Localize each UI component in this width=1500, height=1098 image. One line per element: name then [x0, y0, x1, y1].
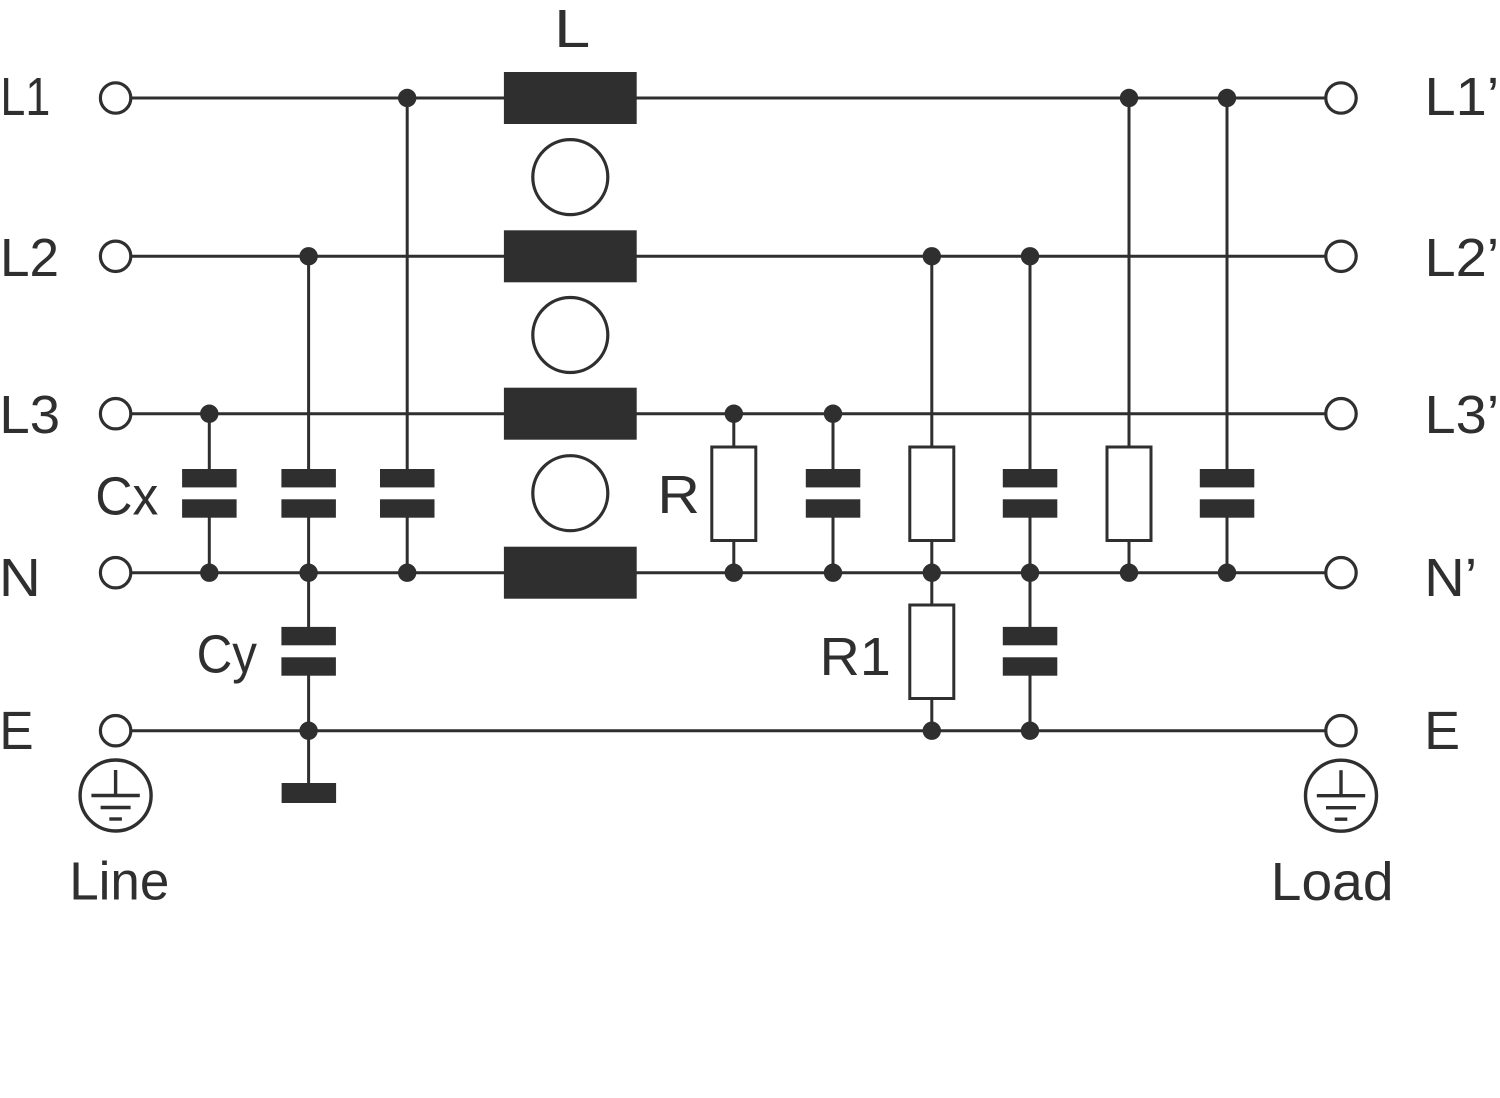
choke L core circle 2: [533, 298, 608, 373]
node N-Cx2: [299, 564, 317, 582]
svg-text:L2: L2: [0, 229, 59, 288]
wire Cx2 upper lead: [307, 256, 310, 478]
wire Cx3 lower lead: [406, 508, 409, 573]
terminal L2 load side: [1326, 241, 1356, 271]
wire C7 lower lead: [1029, 666, 1032, 731]
node E-C7: [1021, 722, 1039, 740]
node L2-R2: [923, 247, 941, 265]
svg-text:R: R: [657, 466, 700, 525]
resistor R3: [1107, 447, 1151, 541]
capacitor Cx2: [281, 469, 336, 518]
wire C4 upper lead: [832, 414, 835, 478]
wire chassis lead: [307, 731, 310, 793]
choke L core circle 3: [533, 456, 608, 531]
svg-text:L3: L3: [0, 386, 60, 445]
wire L1: [116, 97, 1341, 100]
svg-text:N’: N’: [1424, 549, 1477, 608]
wire Cx1 lower lead: [208, 508, 211, 573]
svg-text:E: E: [1424, 702, 1460, 761]
capacitor Cy: [281, 627, 336, 676]
node N-R3: [1120, 564, 1138, 582]
svg-text:E: E: [0, 702, 34, 761]
node E-Cy: [299, 722, 317, 740]
wire E: [116, 729, 1341, 732]
wire L2: [116, 255, 1341, 258]
wire C5 upper lead: [1029, 256, 1032, 478]
choke L winding 4: [504, 547, 637, 599]
wire R3 leads: [1128, 98, 1131, 573]
terminal N line side: [100, 558, 130, 588]
terminal L1 load side: [1326, 83, 1356, 113]
capacitor Cx3: [380, 469, 435, 518]
node N-C5: [1021, 564, 1039, 582]
node L2-C5: [1021, 247, 1039, 265]
wire C6 upper lead: [1226, 98, 1229, 478]
wire C6 lower lead: [1226, 508, 1229, 573]
terminal L3 line side: [100, 399, 130, 429]
terminal E line side: [100, 716, 130, 746]
wire C7 upper lead: [1029, 573, 1032, 636]
wire C5 lower lead: [1029, 508, 1032, 573]
svg-text:Load: Load: [1271, 852, 1394, 912]
terminal L2 line side: [100, 241, 130, 271]
wire R leads: [732, 414, 735, 573]
node N-Cx3: [398, 564, 416, 582]
choke L winding 2: [504, 230, 637, 282]
chassis ground bar: [282, 783, 337, 803]
node L1-Cx3: [398, 89, 416, 107]
choke L winding 1: [504, 72, 637, 124]
node N-R: [725, 564, 743, 582]
capacitor C4: [806, 469, 861, 518]
terminal N load side: [1326, 558, 1356, 588]
capacitor Cx1: [182, 469, 237, 518]
node N-R2: [923, 564, 941, 582]
wire Cy upper lead: [307, 573, 310, 636]
node L2-Cx2: [299, 247, 317, 265]
capacitor C7: [1003, 627, 1058, 676]
node N-C6: [1218, 564, 1236, 582]
svg-text:Cy: Cy: [197, 625, 258, 684]
resistor R2: [910, 447, 954, 541]
choke L core circle 1: [533, 140, 608, 215]
wire N: [116, 571, 1341, 574]
node L1-R3: [1120, 89, 1138, 107]
svg-text:R1: R1: [820, 628, 891, 687]
wire Cx1 upper lead: [208, 414, 211, 478]
wire L3: [116, 412, 1341, 415]
svg-text:Cx: Cx: [95, 468, 158, 527]
node L1-C6: [1218, 89, 1236, 107]
svg-text:L1: L1: [0, 68, 50, 127]
terminal L3 load side: [1326, 399, 1356, 429]
node L3-R: [725, 405, 743, 423]
svg-text:Line: Line: [69, 851, 169, 911]
protective earth symbol (Line): [80, 760, 151, 831]
node E-R1: [923, 722, 941, 740]
node L3-C4: [824, 405, 842, 423]
resistor R1: [910, 605, 954, 699]
capacitor C6: [1200, 469, 1255, 518]
capacitor C5: [1003, 469, 1058, 518]
terminal L1 line side: [100, 83, 130, 113]
choke L winding 3: [504, 388, 637, 440]
wire Cy lower lead: [307, 666, 310, 731]
svg-text:L2’: L2’: [1425, 229, 1500, 288]
wire C4 lower lead: [832, 508, 835, 573]
svg-text:L3’: L3’: [1425, 386, 1500, 445]
svg-text:L1’: L1’: [1425, 68, 1500, 127]
node N-Cx1: [200, 564, 218, 582]
svg-text:N: N: [0, 549, 41, 608]
wire Cx3 upper lead: [406, 98, 409, 478]
svg-text:L: L: [554, 0, 590, 59]
node N-C4: [824, 564, 842, 582]
protective earth symbol (Load): [1306, 760, 1377, 831]
resistor R: [712, 447, 756, 541]
wire Cx2 lower lead: [307, 508, 310, 573]
node L3-Cx1: [200, 405, 218, 423]
wire R1 leads: [930, 573, 933, 731]
terminal E load side: [1326, 716, 1356, 746]
wire R2 leads: [930, 256, 933, 572]
